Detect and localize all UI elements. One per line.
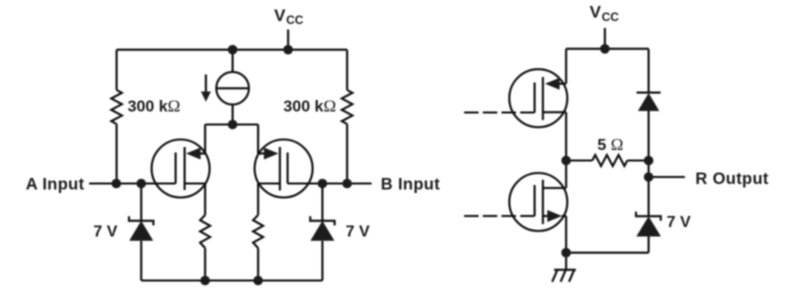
svg-text:300 kΩ: 300 kΩ [128,97,181,116]
svg-text:A Input: A Input [26,175,85,193]
svg-text:7 V: 7 V [93,224,117,241]
svg-text:B Input: B Input [381,175,440,193]
svg-text:R Output: R Output [695,170,769,188]
svg-text:7 V: 7 V [667,214,691,231]
svg-text:300 kΩ: 300 kΩ [283,97,336,116]
svg-text:V: V [274,6,286,25]
svg-text:7 V: 7 V [346,224,370,241]
svg-text:CC: CC [602,10,620,24]
svg-text:CC: CC [286,13,304,27]
svg-text:V: V [590,3,602,22]
svg-text:5 Ω: 5 Ω [597,135,623,154]
